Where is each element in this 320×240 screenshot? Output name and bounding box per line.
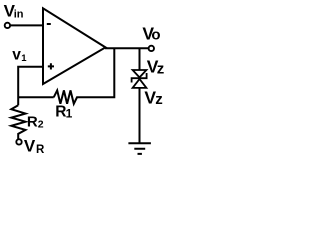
svg-text:1: 1 <box>21 53 27 64</box>
svg-text:o: o <box>151 27 160 44</box>
svg-text:2: 2 <box>38 118 44 130</box>
svg-text:in: in <box>14 8 24 20</box>
svg-text:1: 1 <box>66 106 73 120</box>
svg-text:R: R <box>27 114 38 131</box>
svg-text:z: z <box>155 91 163 108</box>
svg-text:z: z <box>157 60 165 77</box>
svg-text:R: R <box>36 144 45 156</box>
svg-text:v: v <box>12 47 21 64</box>
svg-text:V: V <box>24 137 36 156</box>
